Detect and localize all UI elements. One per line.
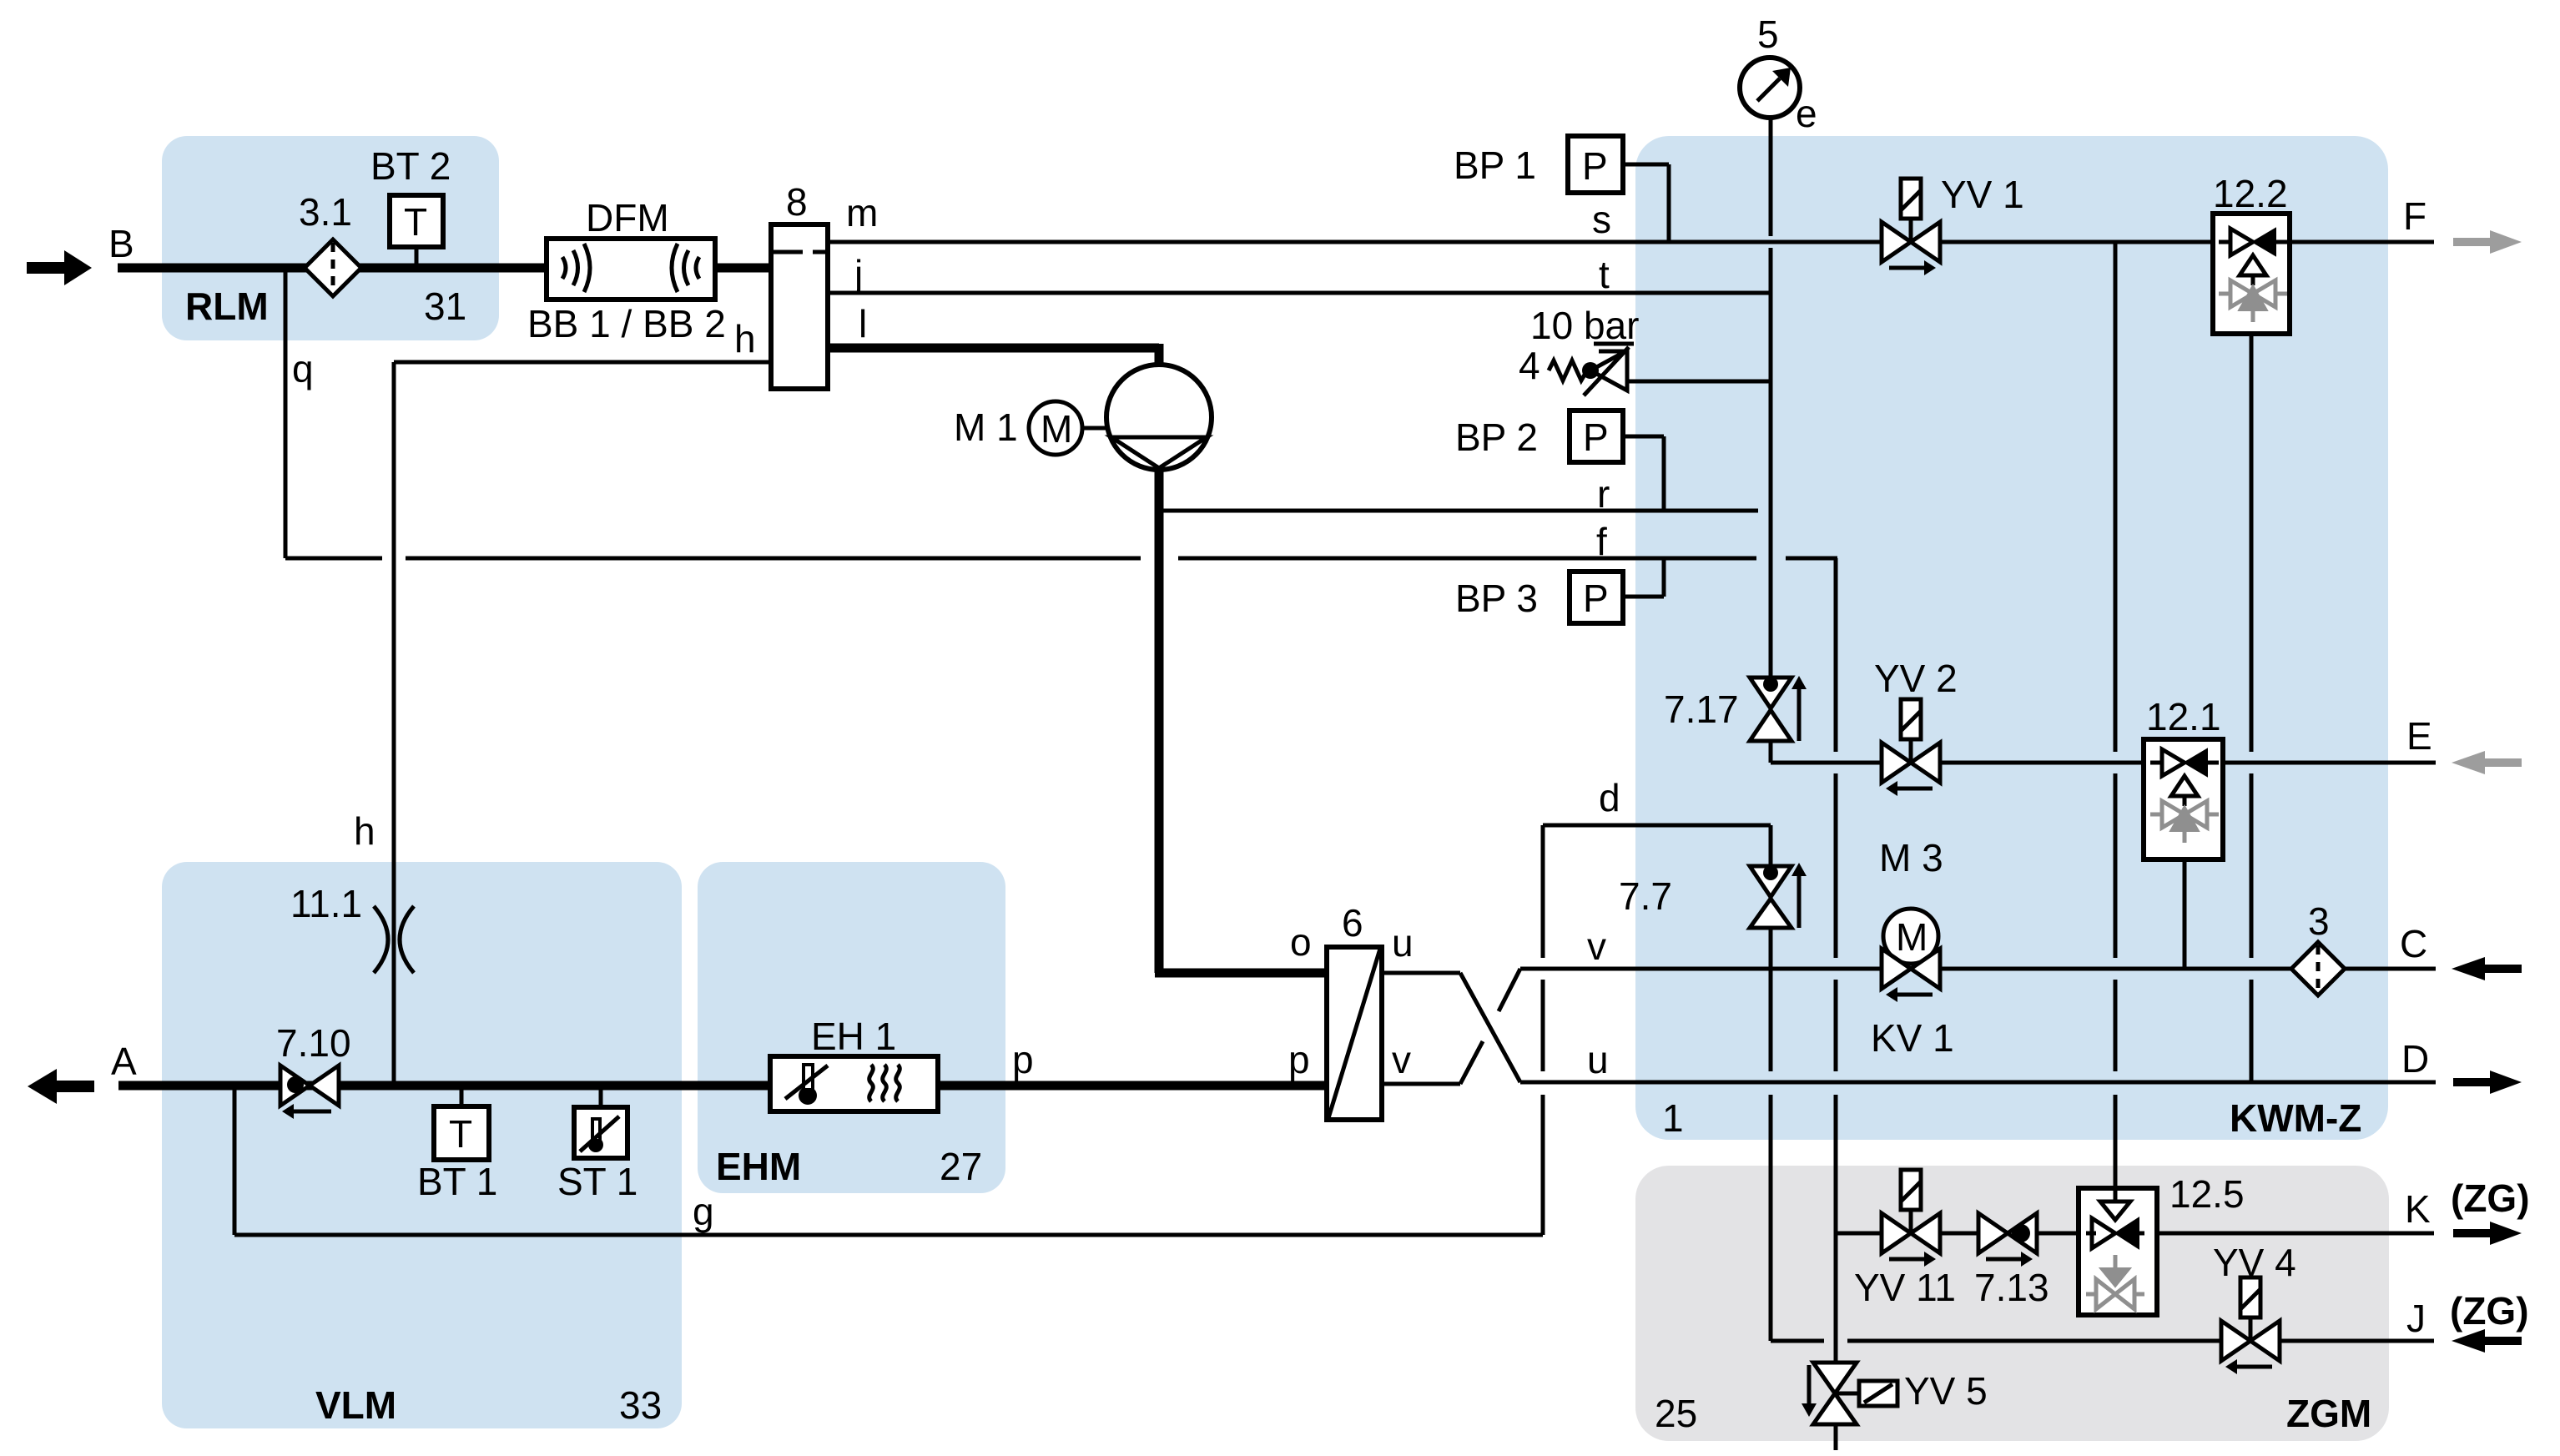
svg-text:7.13: 7.13 bbox=[1974, 1266, 2049, 1309]
svg-text:(ZG): (ZG) bbox=[2450, 1289, 2529, 1333]
svg-text:5: 5 bbox=[1757, 13, 1779, 56]
svg-text:BP 1: BP 1 bbox=[1454, 144, 1536, 187]
svg-text:v: v bbox=[1587, 924, 1606, 968]
svg-text:BP 2: BP 2 bbox=[1455, 416, 1538, 459]
svg-text:EH 1: EH 1 bbox=[811, 1015, 896, 1058]
svg-text:P: P bbox=[1583, 416, 1609, 459]
svg-text:F: F bbox=[2403, 194, 2426, 238]
svg-text:u: u bbox=[1392, 921, 1414, 965]
svg-text:o: o bbox=[1290, 920, 1312, 964]
svg-text:g: g bbox=[693, 1190, 714, 1233]
svg-text:m: m bbox=[846, 191, 878, 234]
svg-text:7.17: 7.17 bbox=[1664, 688, 1739, 731]
svg-text:T: T bbox=[404, 200, 427, 244]
svg-text:12.1: 12.1 bbox=[2146, 695, 2221, 738]
svg-text:T: T bbox=[449, 1112, 472, 1156]
svg-text:ST 1: ST 1 bbox=[557, 1160, 637, 1203]
svg-text:M: M bbox=[1896, 915, 1928, 959]
svg-text:A: A bbox=[111, 1040, 137, 1083]
svg-text:KV 1: KV 1 bbox=[1871, 1016, 1954, 1060]
svg-text:1: 1 bbox=[1662, 1096, 1684, 1140]
svg-text:M 1: M 1 bbox=[954, 406, 1018, 449]
svg-text:ZGM: ZGM bbox=[2286, 1392, 2371, 1435]
svg-text:P: P bbox=[1583, 577, 1609, 620]
svg-text:t: t bbox=[1599, 253, 1610, 296]
svg-text:v: v bbox=[1392, 1038, 1411, 1081]
svg-text:(ZG): (ZG) bbox=[2451, 1176, 2530, 1220]
svg-text:l: l bbox=[859, 302, 867, 345]
svg-text:DFM: DFM bbox=[586, 196, 669, 239]
svg-text:M: M bbox=[1041, 407, 1072, 451]
svg-text:RLM: RLM bbox=[185, 285, 269, 328]
svg-text:33: 33 bbox=[619, 1383, 662, 1427]
svg-text:YV 11: YV 11 bbox=[1854, 1266, 1956, 1309]
svg-text:12.5: 12.5 bbox=[2169, 1172, 2245, 1216]
svg-text:31: 31 bbox=[424, 285, 466, 328]
svg-text:7.10: 7.10 bbox=[276, 1021, 351, 1065]
svg-text:j: j bbox=[853, 252, 863, 295]
svg-text:f: f bbox=[1596, 520, 1607, 563]
svg-text:VLM: VLM bbox=[315, 1383, 396, 1427]
svg-text:12.2: 12.2 bbox=[2213, 172, 2288, 215]
svg-text:e: e bbox=[1796, 92, 1817, 135]
svg-text:6: 6 bbox=[1342, 901, 1363, 945]
svg-text:d: d bbox=[1599, 776, 1620, 819]
svg-text:4: 4 bbox=[1519, 344, 1540, 387]
svg-text:q: q bbox=[292, 347, 314, 390]
svg-text:YV 1: YV 1 bbox=[1941, 173, 2024, 216]
svg-text:h: h bbox=[734, 317, 756, 360]
svg-text:YV 4: YV 4 bbox=[2213, 1241, 2296, 1284]
svg-text:s: s bbox=[1592, 198, 1611, 241]
svg-text:p: p bbox=[1012, 1038, 1034, 1081]
svg-text:8: 8 bbox=[786, 180, 808, 224]
svg-text:KWM-Z: KWM-Z bbox=[2230, 1096, 2361, 1140]
svg-text:YV 2: YV 2 bbox=[1874, 657, 1958, 700]
svg-text:J: J bbox=[2406, 1297, 2426, 1340]
svg-text:BB 1 / BB 2: BB 1 / BB 2 bbox=[527, 302, 726, 345]
svg-text:25: 25 bbox=[1655, 1392, 1697, 1435]
svg-text:B: B bbox=[108, 222, 134, 265]
svg-text:27: 27 bbox=[940, 1145, 982, 1188]
svg-text:E: E bbox=[2406, 714, 2432, 758]
svg-text:K: K bbox=[2405, 1187, 2431, 1231]
svg-text:C: C bbox=[2400, 922, 2427, 965]
svg-text:3.1: 3.1 bbox=[299, 190, 352, 234]
svg-text:YV 5: YV 5 bbox=[1904, 1369, 1988, 1413]
svg-text:M 3: M 3 bbox=[1879, 836, 1943, 879]
svg-text:u: u bbox=[1587, 1038, 1609, 1081]
svg-text:BT 1: BT 1 bbox=[417, 1160, 497, 1203]
svg-text:3: 3 bbox=[2308, 899, 2330, 943]
svg-text:p: p bbox=[1288, 1038, 1310, 1081]
svg-text:BT 2: BT 2 bbox=[370, 144, 451, 188]
svg-text:EHM: EHM bbox=[716, 1145, 801, 1188]
svg-text:BP 3: BP 3 bbox=[1455, 577, 1538, 620]
svg-text:7.7: 7.7 bbox=[1619, 874, 1672, 918]
svg-text:r: r bbox=[1597, 472, 1610, 516]
svg-text:10 bar: 10 bar bbox=[1530, 304, 1639, 347]
svg-text:P: P bbox=[1582, 144, 1608, 188]
svg-text:11.1: 11.1 bbox=[290, 882, 362, 925]
svg-text:h: h bbox=[354, 809, 375, 853]
svg-text:D: D bbox=[2401, 1037, 2429, 1081]
